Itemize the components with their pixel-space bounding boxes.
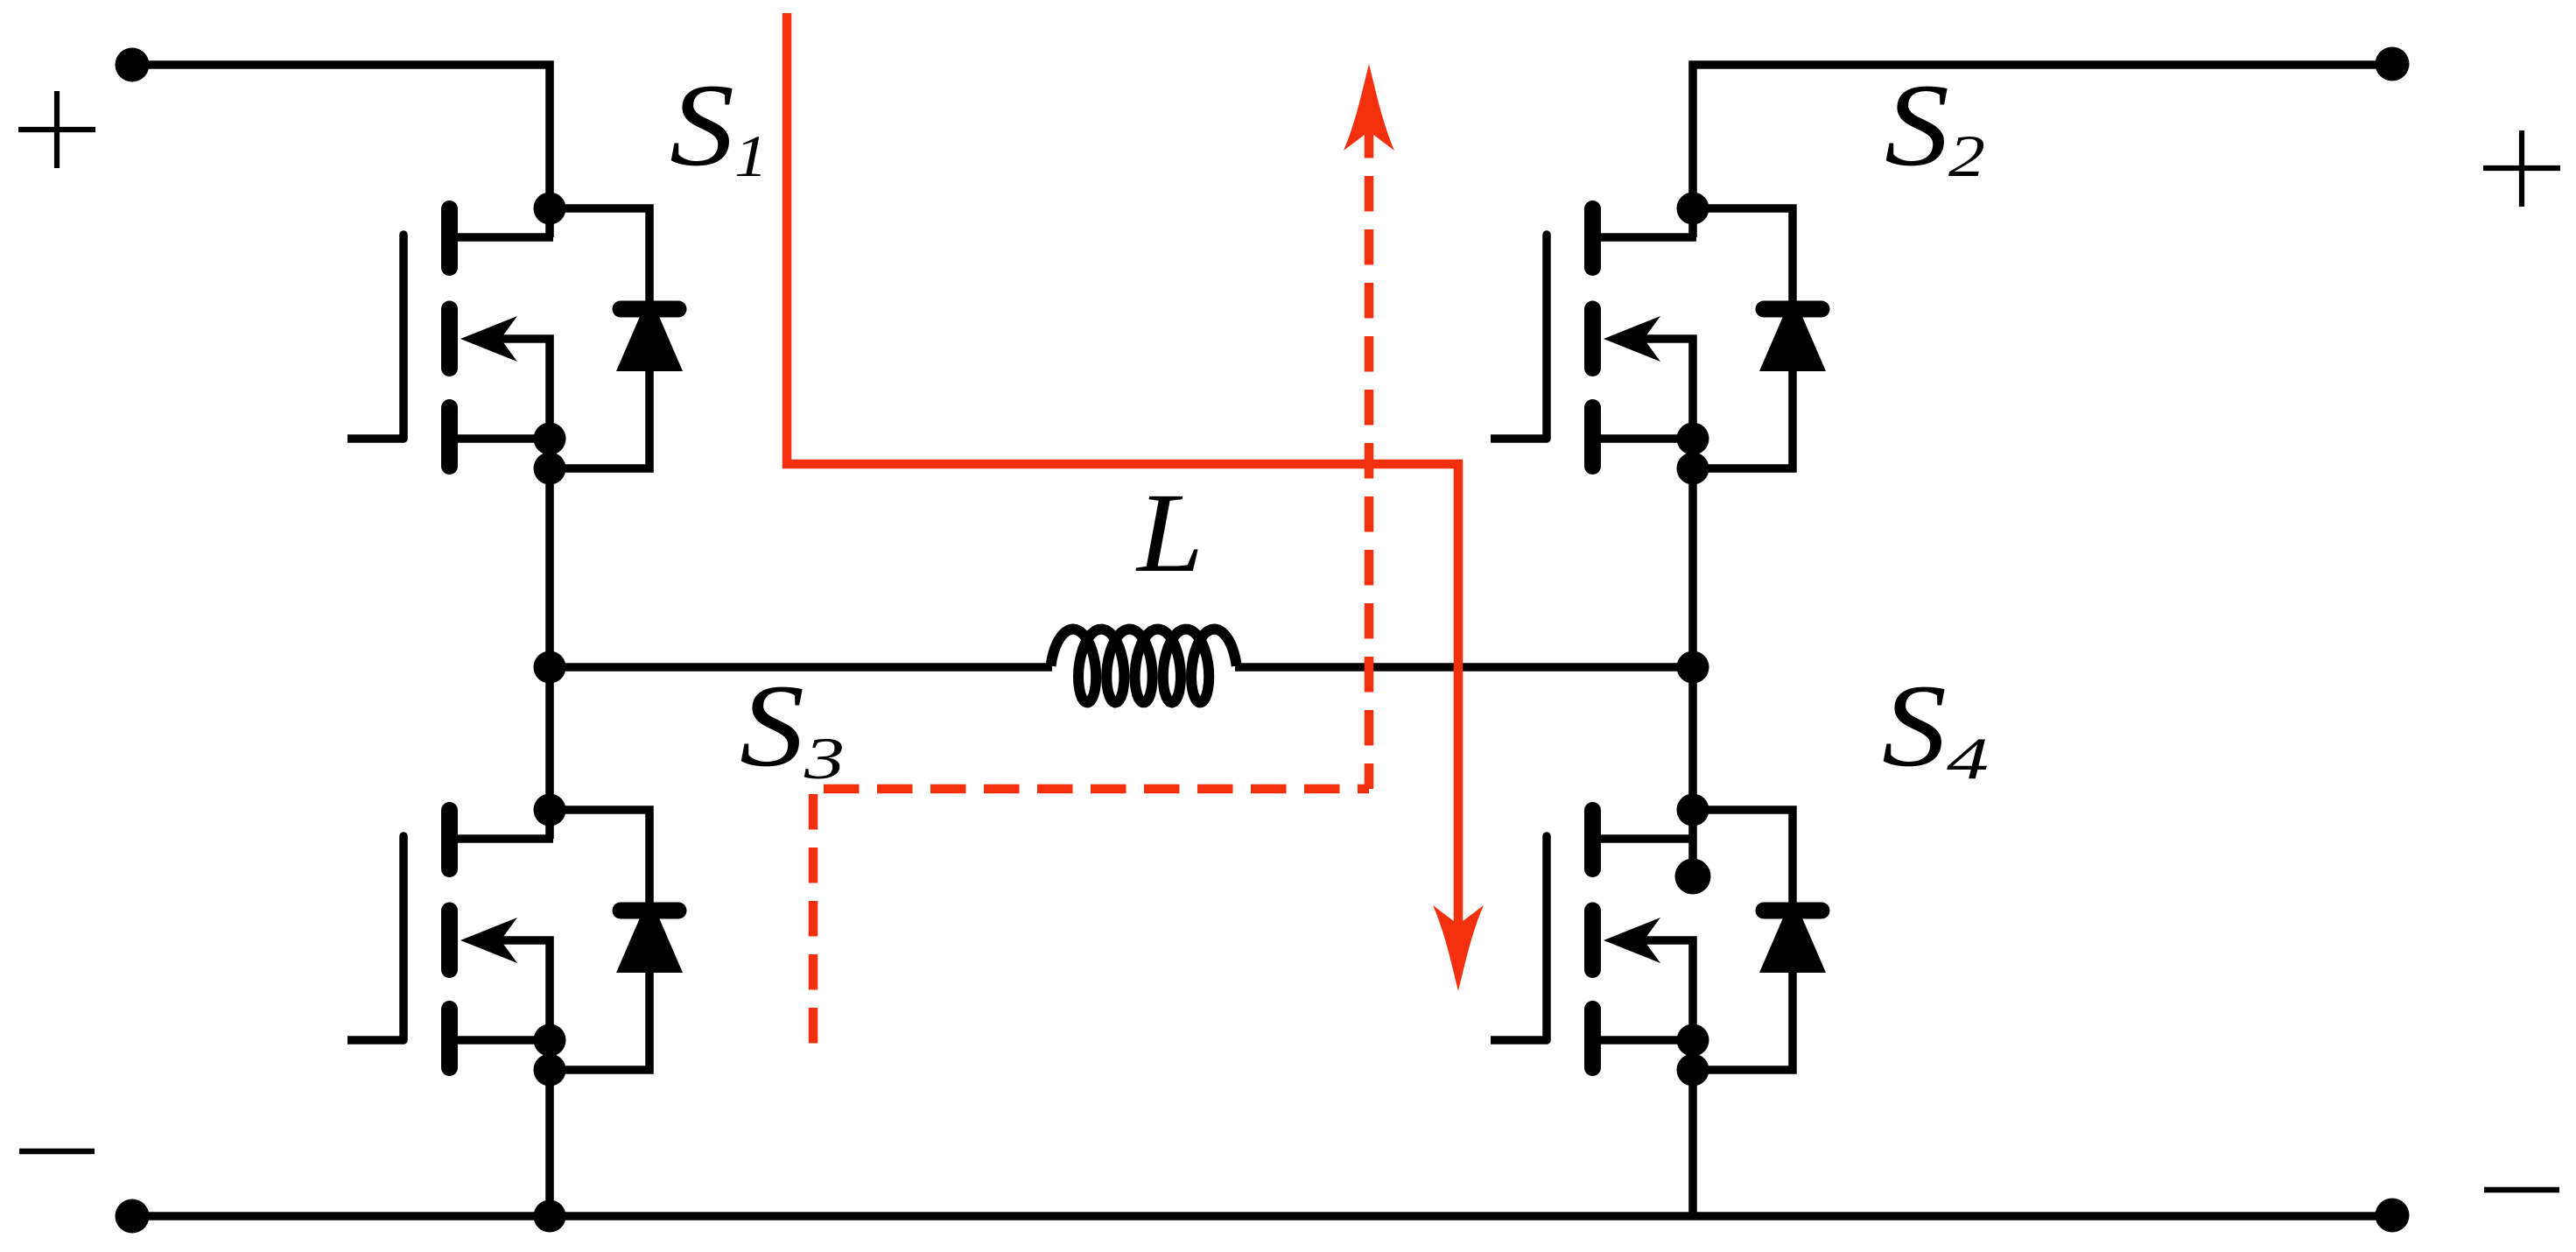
svg-text:S: S [740,661,804,791]
node: middle rail left junction [534,651,566,684]
svg-text:S: S [1882,661,1947,791]
body diode cathode bar [1764,301,1821,318]
channel bar (drain segment) [1584,811,1601,869]
wire: top-left input rail [132,65,550,237]
body diode triangle [616,896,683,973]
node: diode return dot [534,1054,566,1087]
node: diode return dot [1677,453,1709,485]
svg-text:S: S [1885,60,1949,191]
svg-text:L: L [1135,470,1204,596]
wire: top-right output rail [1693,65,2392,237]
channel bar (drain segment) [441,811,458,869]
body diode cathode bar [1764,903,1821,919]
body diode triangle [1759,896,1826,973]
wire: drain lead [458,834,553,843]
red solid current path (S1 on) [787,13,1458,930]
wire: source lead [458,434,553,443]
red dashed path vertical right segment [1365,123,1374,789]
node: diode return dot [534,453,566,485]
svg-text:S: S [670,60,734,191]
wire: bottom rail [132,1212,2392,1220]
transistor S1 (N-channel MOSFET with body diode) [347,193,683,485]
wire: body connection [1633,940,1693,1036]
wire: gate lead [347,434,404,443]
minus sign (input −) [19,1149,95,1155]
node: middle rail right junction [1677,651,1709,684]
node: drain junction dot [534,193,566,225]
body diode triangle [616,294,683,371]
wire: drain lead [1601,233,1696,242]
wire: diode branch bottom [550,371,649,468]
node: source lead dot [534,1024,566,1057]
body diode cathode bar [621,903,678,919]
red solid path arrowhead (down) [1433,905,1484,991]
channel bar (source segment) [1584,408,1601,467]
wire: diode branch top [1693,208,1793,309]
wire: diode branch top [1693,810,1793,911]
wire: gate lead [1491,434,1547,443]
node: source lead dot [534,423,566,455]
red dashed path horizontal segment [824,784,1369,794]
minus sign (output −) [2484,1187,2559,1193]
red dashed path arrowhead (up) [1344,64,1394,151]
node: bottom-left input terminal [116,1199,150,1234]
transistor S4 (N-channel MOSFET with body diode) [1491,794,1826,1087]
channel bar (body segment) [1584,309,1601,369]
node: bottom-right output terminal [2376,1199,2410,1233]
wire: drain lead [1601,834,1696,843]
body arrow (points into channel) [460,316,517,362]
node: top-left input terminal [116,48,150,82]
inductor L coil [1051,630,1237,703]
wire: middle rail right of inductor [1235,663,1693,672]
wire: S4 source to bottom rail [1688,1070,1697,1216]
channel bar (body segment) [441,309,458,369]
wire: drain lead [458,233,553,242]
channel bar (body segment) [1584,911,1601,970]
wire: S1 source to middle rail [545,468,554,667]
wire: gate lead [1491,1036,1547,1045]
channel bar (drain segment) [441,209,458,268]
svg-text:1: 1 [734,123,768,189]
wire: middle rail to S3 drain [545,667,554,839]
wire: source lead [1601,434,1696,443]
body diode triangle [1759,294,1826,371]
node: diode return dot [1677,1054,1709,1087]
node: top-right output terminal [2376,47,2410,81]
node: source lead dot [1677,423,1709,455]
svg-text:4: 4 [1947,725,1989,791]
node: drain junction dot [1677,794,1709,826]
node: drain junction dot [534,794,566,826]
svg-text:2: 2 [1948,123,1985,189]
wire: source lead [458,1036,553,1045]
body arrow (points into channel) [1604,918,1660,963]
gate electrode line [1542,836,1551,1040]
gate electrode line [1542,235,1551,439]
wire: body connection [490,339,550,434]
svg-text:3: 3 [804,725,845,791]
transistor S2 (N-channel MOSFET with body diode) [1491,193,1826,485]
wire: diode branch top [550,810,649,911]
body arrow (points into channel) [1604,316,1660,362]
wire: gate lead [347,1036,404,1045]
node: source lead dot [1677,1024,1709,1057]
wire: middle rail to S4 drain stub [1688,667,1697,876]
wire: S2 source to middle rail [1688,468,1697,667]
wire: body connection [490,940,550,1036]
red dashed path vertical left segment [809,794,818,1046]
channel bar (source segment) [441,408,458,467]
gate electrode line [399,235,408,439]
node: extra drain stub dot [1675,859,1711,895]
wire: diode branch top [550,208,649,309]
wire: diode branch bottom [1693,973,1793,1070]
wire: body connection [1633,339,1693,434]
wire: S3 source to bottom rail [545,1070,554,1216]
wire: diode branch bottom [1693,371,1793,468]
channel bar (body segment) [441,911,458,970]
wire: source lead [1601,1036,1696,1045]
channel bar (drain segment) [1584,209,1601,268]
plus sign (output +) [2483,130,2560,207]
gate electrode line [399,836,408,1040]
body diode cathode bar [621,301,678,318]
transistor S3 (N-channel MOSFET with body diode) [347,794,683,1087]
node: drain junction dot [1677,193,1709,225]
channel bar (source segment) [441,1009,458,1068]
node: S3 bottom rail junction [534,1200,566,1233]
plus sign (input +) [18,91,95,168]
wire: middle rail left of inductor [550,663,1052,672]
channel bar (source segment) [1584,1009,1601,1068]
body arrow (points into channel) [460,918,517,963]
wire: diode branch bottom [550,973,649,1070]
